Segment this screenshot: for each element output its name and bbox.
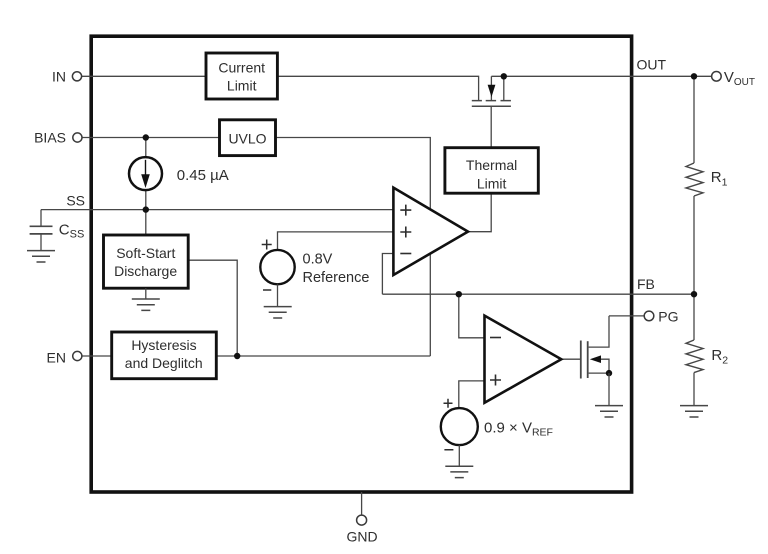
svg-text:0.45 µA: 0.45 µA <box>177 167 229 184</box>
comparator U3 power good <box>485 316 562 403</box>
wire SS node to Soft-Start Discharge block <box>145 210 147 235</box>
svg-text:Reference: Reference <box>303 270 370 286</box>
wire Hysteresis output to EN net corner <box>216 355 430 357</box>
junction node FB / comparator <box>456 291 462 297</box>
svg-text:and Deglitch: and Deglitch <box>125 355 203 371</box>
block Soft-Start Discharge <box>104 235 189 288</box>
ground for 0.8V reference <box>264 307 292 318</box>
svg-text:SS: SS <box>66 193 85 209</box>
voltage source 0.8V reference <box>260 240 294 307</box>
ground for Q2 <box>595 406 623 417</box>
svg-text:Soft-Start: Soft-Start <box>116 245 175 261</box>
wire error amp output to Thermal Limit and Q1 gate <box>468 106 491 231</box>
ground for Soft-Start Discharge <box>132 299 160 310</box>
terminal VOUT <box>712 72 722 82</box>
block Current Limit <box>206 53 277 99</box>
wire Q2 source to ground <box>608 373 610 406</box>
svg-text:GND: GND <box>347 528 378 544</box>
wire BIAS: pin to UVLO <box>82 137 220 139</box>
junction node FB / divider <box>691 291 697 297</box>
svg-text:0.8V: 0.8V <box>303 251 333 267</box>
terminal IN <box>72 72 81 81</box>
svg-text:Limit: Limit <box>477 175 507 191</box>
junction node Q1 drain / OUT <box>501 73 507 79</box>
terminal GND <box>357 515 367 525</box>
wire Soft-Start Discharge to ground <box>145 288 147 299</box>
wire FB net: to R1 R2 divider <box>382 293 694 295</box>
resistor R2 <box>686 340 703 373</box>
terminal EN <box>73 351 82 360</box>
wire R1 to FB node <box>693 196 695 294</box>
wire error amp - input to FB net <box>382 254 393 295</box>
wire VOUT node to R1 <box>693 76 695 163</box>
IC outer boundary box U1 <box>91 36 631 492</box>
wire FB node down to comparator - input <box>459 294 485 338</box>
wire SS net: CSS to error amp + input <box>41 209 393 211</box>
svg-text:Limit: Limit <box>227 78 257 94</box>
wire IN: pin to Current Limit and to Q1 source <box>82 76 479 100</box>
transistor Q1 PMOS pass element <box>472 76 511 106</box>
ground for CSS <box>27 251 55 262</box>
svg-text:IN: IN <box>52 69 66 85</box>
ground for R2 <box>680 406 708 417</box>
svg-text:Current: Current <box>218 60 265 76</box>
wire R2 to ground <box>693 373 695 406</box>
wire GND pin <box>361 492 363 515</box>
wire EN: pin to Hysteresis block <box>82 355 112 357</box>
wire BIAS to current source I1 <box>145 138 147 158</box>
terminal BIAS <box>73 133 82 142</box>
wire FB node to R2 <box>693 294 695 340</box>
svg-text:FB: FB <box>637 276 655 292</box>
voltage source 0.9xVREF <box>441 399 478 466</box>
transistor Q2 NMOS PG driver <box>581 316 612 379</box>
resistor R1 <box>686 163 703 196</box>
svg-text:PG: PG <box>658 309 678 325</box>
svg-text:Thermal: Thermal <box>466 157 517 173</box>
terminal PG <box>644 311 654 321</box>
junction node EN net <box>234 353 240 359</box>
block UVLO <box>220 120 276 156</box>
junction node VOUT / R1 <box>691 73 697 79</box>
wire UVLO output down to EN net <box>276 138 431 357</box>
wire Q2 drain to PG terminal <box>609 315 644 317</box>
svg-text:EN: EN <box>47 350 66 366</box>
wire OUT: Q1 drain to VOUT terminal <box>491 75 711 77</box>
wire comparator + input to 0.9xVREF source <box>459 381 485 408</box>
svg-text:Discharge: Discharge <box>114 263 177 279</box>
capacitor CSS <box>30 210 53 251</box>
wire comparator output to Q2 gate <box>561 358 580 360</box>
junction node BIAS/current source <box>143 134 149 140</box>
junction node SS <box>143 206 149 212</box>
svg-text:Hysteresis: Hysteresis <box>131 337 196 353</box>
svg-text:OUT: OUT <box>637 57 667 73</box>
wire current source I1 to SS net <box>145 190 147 210</box>
block Hysteresis and Deglitch <box>112 332 217 379</box>
svg-text:BIAS: BIAS <box>34 130 66 146</box>
svg-text:UVLO: UVLO <box>228 131 266 147</box>
ground for 0.9xVREF <box>445 466 473 477</box>
wire Soft-Start Discharge output to EN net <box>188 260 237 356</box>
wire 0.8V reference to error amp + input <box>278 232 394 250</box>
block Thermal Limit <box>445 148 538 194</box>
op-amp error amplifier U2 <box>393 188 468 275</box>
current source I1 0.45uA <box>129 157 162 190</box>
